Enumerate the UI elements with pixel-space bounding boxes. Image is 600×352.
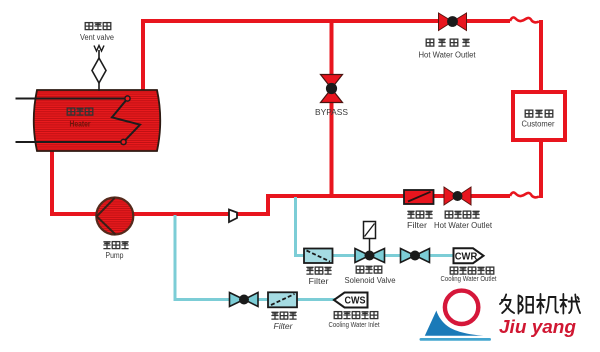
vent valve diamond body: [92, 58, 106, 83]
svg-text:Jiu yang: Jiu yang: [499, 317, 576, 337]
valve V2 bypass (vertical): [321, 75, 343, 103]
customer box: [513, 92, 565, 140]
CWS arrow: [334, 293, 368, 308]
heating element: top terminal circle: [125, 96, 130, 101]
svg-text:Heater: Heater: [70, 120, 91, 129]
label solenoid valve: [345, 266, 397, 285]
valve V3 hot water inlet: [444, 187, 471, 205]
wire: top hot supply line y=21: [143, 19, 510, 23]
wire: tank bottom downcomer x=52: [50, 150, 54, 216]
svg-text:Solenoid Valve: Solenoid Valve: [345, 276, 397, 285]
svg-text:Cooling Water Outlet: Cooling Water Outlet: [441, 274, 498, 283]
wire: cooling water outlet branch (cyan) x=295.5: [296, 197, 456, 256]
wire: left riser from tank top to top line: [141, 19, 145, 91]
机: [537, 294, 558, 314]
check valve on pump line: [229, 210, 237, 223]
wire: pipe-break squiggle return line: [510, 192, 539, 197]
svg-text:Customer: Customer: [522, 120, 555, 129]
label customer: [522, 110, 555, 128]
wire: jog between return line and pump line x=268: [266, 194, 270, 214]
wire: cooling water inlet branch (cyan) x=175: [175, 215, 336, 300]
label pump: [103, 242, 128, 260]
label cooling water outlet: [441, 267, 498, 283]
heating element: zigzag: [112, 99, 140, 143]
logo: blue bar: [420, 338, 492, 341]
valve V5 cooling inlet row: [230, 293, 259, 307]
label hot water outlet: [419, 39, 477, 59]
wire: return line y=196: [268, 194, 510, 198]
svg-text:Filter: Filter: [407, 221, 427, 230]
heating element: top feed line: [16, 98, 128, 100]
filter F2 cooling outlet row (cyan): [304, 249, 333, 264]
CWR arrow: [454, 248, 484, 263]
pump P1: [96, 198, 133, 235]
svg-text:CWR: CWR: [455, 251, 478, 262]
logo: blue fin: [425, 311, 484, 336]
svg-text:Hot Water Outlet: Hot Water Outlet: [419, 51, 477, 60]
wire: pipe-break squiggle top right: [510, 17, 539, 22]
filter F3 cooling inlet (cyan): [268, 292, 297, 307]
label cooling water inlet: [329, 312, 381, 329]
wire: customer box bottom riser: [539, 142, 543, 198]
heating element: bottom feed line: [16, 141, 124, 143]
logo: red ring: [445, 291, 478, 324]
wire: bypass vertical x=331.5: [330, 21, 334, 196]
label filter F2: [306, 267, 331, 286]
label hot water inlet: [434, 211, 493, 230]
wire: pump suction line y=214: [52, 212, 270, 216]
label vent valve: [80, 23, 115, 42]
svg-text:Filter: Filter: [274, 322, 293, 331]
label filter F3: [271, 312, 296, 331]
valve V4 cooling outlet: [401, 249, 430, 263]
solenoid valve SV1: [355, 222, 385, 263]
logo text 久阳机械: [500, 294, 580, 314]
tank label 加热器: [67, 108, 93, 128]
svg-text:CWS: CWS: [345, 296, 366, 307]
vent valve stem and spring: [98, 50, 100, 91]
wire: right riser from squiggle down to customer box: [539, 20, 543, 92]
valve V1 hot water outlet (top line): [439, 13, 467, 31]
tank T1 (heater vessel): [34, 90, 161, 151]
阳: [518, 296, 533, 314]
svg-text:Hot Water Outlet: Hot Water Outlet: [434, 221, 493, 230]
heating element: bottom terminal circle: [121, 139, 126, 144]
svg-text:Filter: Filter: [309, 277, 329, 286]
filter F1 hot water inlet (red): [404, 190, 434, 204]
械: [560, 294, 580, 314]
svg-text:Pump: Pump: [106, 251, 124, 260]
svg-text:Vent valve: Vent valve: [80, 33, 115, 42]
svg-text:BYPASS: BYPASS: [315, 107, 348, 117]
label filter (red): [407, 211, 433, 230]
久: [500, 295, 514, 314]
svg-text:Cooling Water Inlet: Cooling Water Inlet: [329, 320, 381, 329]
